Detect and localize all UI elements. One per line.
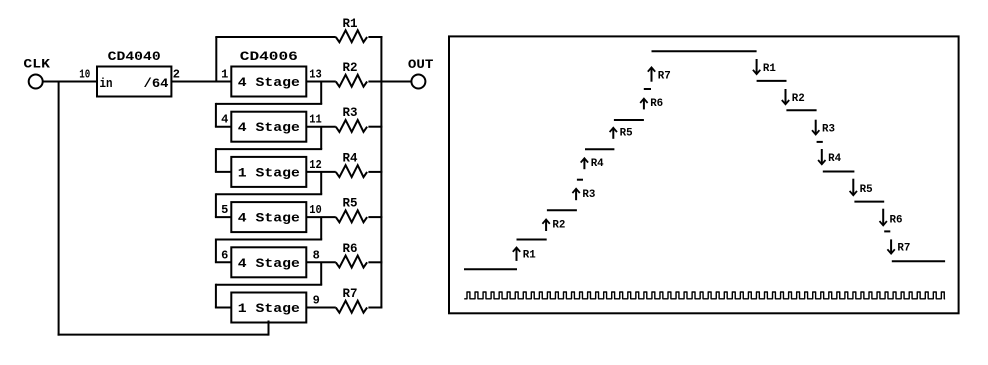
- wire output bus vertical: [380, 36, 382, 308]
- annotation up-arrow R3 (rising step): [572, 189, 595, 201]
- waveform falling step level 3: [823, 171, 855, 173]
- waveform rising step level 6 (short): [644, 88, 651, 90]
- svg-text:R1: R1: [523, 250, 536, 262]
- waveform falling step level 0: [892, 260, 945, 262]
- wire R2 to bus: [368, 81, 382, 83]
- svg-text:13: 13: [309, 68, 322, 82]
- wire down to stage 2 input: [215, 103, 217, 127]
- annotation up-arrow R7 (rising step): [648, 67, 671, 82]
- wire stage 2 output: [306, 126, 336, 128]
- resistor R5: [336, 196, 367, 223]
- wire stage 5 to stage 6 horizontal: [216, 284, 322, 286]
- wire into stage 5 pin: [215, 261, 231, 263]
- wire stage 1 output: [306, 81, 336, 83]
- waveform rising step level 3 (short): [577, 179, 583, 181]
- waveform rising step top level 7: [652, 50, 757, 52]
- waveform rising step level 5: [614, 119, 644, 121]
- svg-text:R2: R2: [343, 60, 358, 75]
- wire R3 to bus: [368, 126, 382, 128]
- wire R5 to bus: [368, 216, 382, 218]
- wire into stage 4 pin: [215, 216, 231, 218]
- annotation down-arrow R1 (falling step): [753, 59, 776, 75]
- wire bus to OUT: [381, 81, 411, 83]
- waveform falling step level 2: [854, 201, 884, 203]
- svg-text:R6: R6: [650, 98, 663, 110]
- waveform falling step level 6: [757, 80, 787, 82]
- waveform rising step level 1: [517, 239, 547, 241]
- svg-text:CLK: CLK: [23, 57, 50, 72]
- svg-text:1 Stage: 1 Stage: [238, 301, 300, 316]
- svg-text:R5: R5: [860, 184, 873, 196]
- wire R7 to bus: [368, 307, 382, 309]
- svg-text:4 Stage: 4 Stage: [238, 120, 300, 135]
- annotation down-arrow R5 (falling step): [850, 179, 873, 196]
- resistor R4: [336, 150, 367, 177]
- wire R6 to bus: [368, 261, 382, 263]
- wire stage 3 output: [306, 171, 336, 173]
- svg-text:10: 10: [309, 203, 322, 217]
- svg-text:R4: R4: [828, 153, 841, 165]
- wire stage 1 to stage 2 horizontal: [216, 103, 322, 105]
- svg-text:6: 6: [221, 248, 228, 262]
- waveform falling step level 1 (short): [884, 230, 890, 232]
- annotation down-arrow R7 (falling step): [887, 239, 910, 254]
- resistor R7: [336, 286, 367, 313]
- svg-text:/64: /64: [144, 76, 169, 91]
- wire stage 4 to stage 5 horizontal: [216, 239, 322, 241]
- wire stage 4 out down: [320, 217, 322, 239]
- svg-text:1 Stage: 1 Stage: [238, 165, 300, 180]
- svg-text:4 Stage: 4 Stage: [238, 256, 300, 271]
- waveform rising step level 4: [585, 148, 614, 150]
- svg-text:10: 10: [79, 68, 90, 82]
- svg-text:CD4040: CD4040: [108, 49, 161, 64]
- svg-text:R5: R5: [343, 196, 358, 211]
- wire stage 3 to stage 4 horizontal: [216, 193, 322, 195]
- svg-text:in: in: [100, 76, 113, 91]
- wire CLK to CD4040 pin10: [43, 81, 97, 83]
- wire CD4040 pin2 to CD4006 pin1: [171, 81, 231, 83]
- clock trace at bottom of plot: [464, 292, 945, 299]
- wire stage 4 output: [306, 216, 336, 218]
- wire stage 2 out down: [320, 127, 322, 149]
- wire stage 3 out down: [320, 172, 322, 194]
- wire stage 1 out down: [320, 82, 322, 104]
- wire feedback bottom: [58, 334, 269, 336]
- annotation up-arrow R2 (rising step): [542, 220, 565, 232]
- svg-text:R7: R7: [658, 70, 671, 82]
- annotation down-arrow R2 (falling step): [782, 89, 805, 105]
- wire CLK feedback down: [58, 82, 60, 336]
- resistor R1: [336, 16, 367, 42]
- resistor R2: [336, 60, 367, 87]
- svg-text:12: 12: [309, 158, 322, 172]
- wire down to stage 6 input: [215, 284, 217, 308]
- annotation down-arrow R4 (falling step): [818, 149, 841, 165]
- svg-text:9: 9: [313, 294, 320, 308]
- wire R1 top left: [215, 36, 335, 38]
- svg-text:11: 11: [309, 113, 322, 127]
- shift register stage U2b (4 Stage): [231, 112, 306, 142]
- svg-text:R1: R1: [763, 63, 776, 75]
- resistor R6: [336, 241, 367, 268]
- wire R1 to bus: [368, 36, 382, 38]
- svg-text:R6: R6: [890, 214, 903, 226]
- wire stage 6 output: [306, 307, 336, 309]
- svg-text:R3: R3: [343, 105, 358, 120]
- wire R4 to bus: [368, 171, 382, 173]
- annotation down-arrow R3 (falling step): [812, 120, 835, 136]
- svg-text:2: 2: [173, 68, 180, 82]
- svg-text:R3: R3: [822, 123, 835, 135]
- wire stage 5 output: [306, 261, 336, 263]
- wire down to stage 3 input: [215, 148, 217, 172]
- annotation down-arrow R6 (falling step): [880, 209, 903, 227]
- svg-text:4 Stage: 4 Stage: [238, 75, 300, 90]
- wire down to stage 4 input: [215, 193, 217, 217]
- svg-text:R3: R3: [582, 189, 595, 201]
- waveform falling step level 4 (short): [817, 141, 823, 143]
- svg-text:4: 4: [221, 113, 228, 127]
- resistor R3: [336, 105, 367, 132]
- shift register stage U2c (1 Stage): [231, 157, 306, 187]
- svg-text:8: 8: [313, 248, 320, 262]
- shift register stage U2a (4 Stage): [231, 67, 306, 97]
- waveform rising step level 0: [464, 268, 517, 270]
- svg-text:R2: R2: [552, 220, 565, 232]
- wire rail up to R1: [215, 37, 217, 82]
- svg-text:R5: R5: [620, 127, 633, 139]
- shift register stage U2f (1 Stage): [231, 293, 306, 323]
- wire down to stage 5 input: [215, 239, 217, 263]
- svg-text:R4: R4: [591, 158, 604, 170]
- svg-text:R2: R2: [792, 93, 805, 105]
- svg-text:R1: R1: [343, 16, 358, 31]
- wire into stage 3 pin: [215, 171, 231, 173]
- annotation up-arrow R1 (rising step): [513, 248, 536, 262]
- wire stage 5 out down: [320, 262, 322, 284]
- svg-text:R7: R7: [343, 286, 358, 301]
- oscilloscope plot frame: [449, 36, 959, 313]
- annotation up-arrow R6 (rising step): [640, 98, 663, 110]
- wire into stage 6 pin: [215, 307, 231, 309]
- node OUT terminal: [408, 57, 434, 89]
- wire feedback up to stage6 clock: [268, 321, 270, 336]
- wire stage 2 to stage 3 horizontal: [216, 148, 322, 150]
- svg-text:5: 5: [221, 203, 228, 217]
- svg-text:1: 1: [221, 68, 228, 82]
- node CLK terminal: [23, 57, 50, 89]
- svg-text:CD4006: CD4006: [240, 49, 298, 64]
- counter U1 CD4040: [97, 49, 171, 97]
- svg-text:R6: R6: [343, 241, 358, 256]
- shift register stage U2e (4 Stage): [231, 247, 306, 277]
- wire into stage 2 pin: [215, 126, 231, 128]
- svg-text:OUT: OUT: [408, 57, 434, 72]
- waveform rising step level 2: [547, 209, 577, 211]
- annotation up-arrow R5 (rising step): [610, 127, 633, 139]
- svg-text:R7: R7: [897, 243, 910, 255]
- shift register stage U2d (4 Stage): [231, 202, 306, 232]
- svg-text:4 Stage: 4 Stage: [238, 211, 300, 226]
- waveform falling step level 5: [786, 109, 816, 111]
- annotation up-arrow R4 (rising step): [581, 158, 604, 170]
- svg-text:R4: R4: [343, 150, 358, 165]
